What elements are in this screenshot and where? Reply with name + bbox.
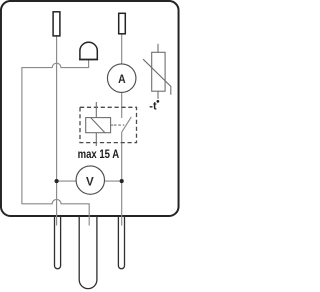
svg-text:-t: -t: [149, 101, 157, 113]
svg-text:A: A: [118, 72, 126, 86]
svg-text:V: V: [86, 175, 94, 188]
svg-text:max 15 A: max 15 A: [78, 149, 120, 161]
